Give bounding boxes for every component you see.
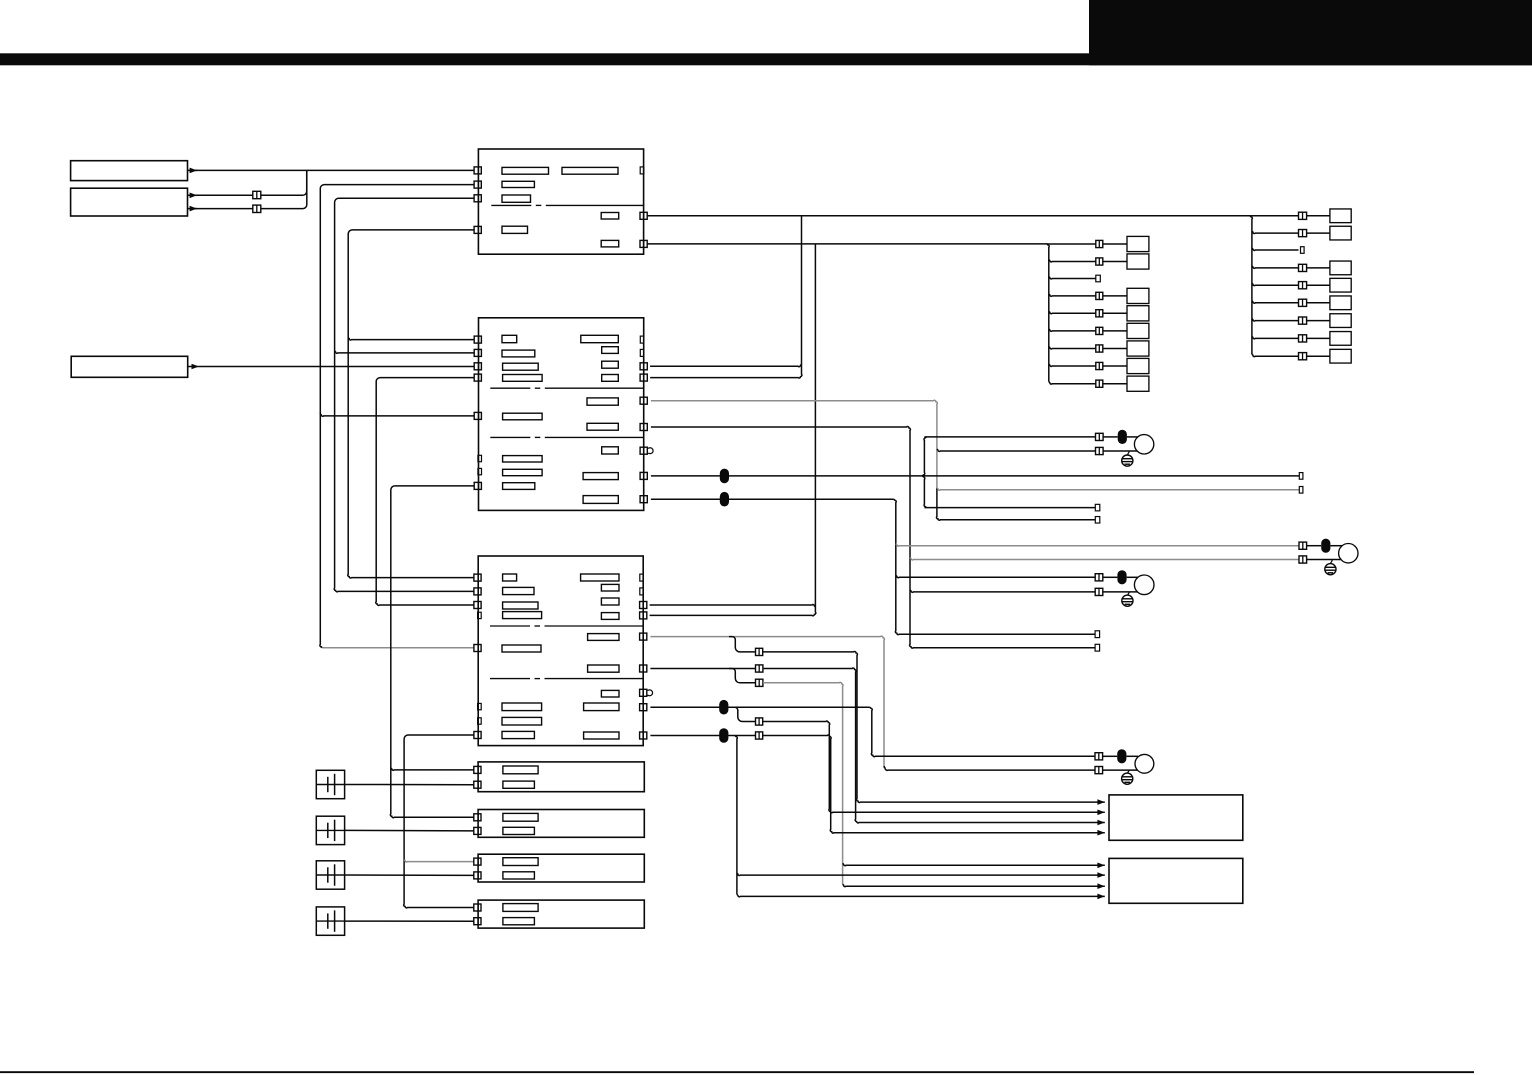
branch arrow row 865 — [843, 863, 1105, 865]
branch motor1 bottom lead — [937, 449, 1096, 451]
bus row 9 wire to module — [1103, 383, 1127, 385]
bus row 1 wire — [1049, 243, 1096, 245]
jog branch 682.8 with connector gray — [729, 669, 756, 683]
block TL3 — [71, 356, 188, 377]
bus corner down at x1048.8 — [1047, 244, 1049, 382]
arrow from TL2 pin1 — [188, 194, 198, 196]
wire TL2 pin1 with connector CN1 — [190, 194, 253, 196]
CD-B inner rects — [503, 813, 538, 821]
motor bead — [1103, 755, 1118, 757]
chassis ground — [1122, 455, 1133, 466]
fan row 1 module box — [1330, 209, 1351, 223]
bus row 3 wire — [1049, 277, 1096, 279]
wire to single connector 507 — [924, 507, 1095, 509]
bus row 6 connector — [1096, 327, 1103, 334]
V936.9 lower black section — [936, 488, 1095, 520]
fan row 8 wire — [1252, 336, 1299, 338]
fan row 5 connector — [1299, 282, 1307, 289]
bus row 7 module box — [1127, 341, 1149, 356]
ground tap — [1127, 770, 1129, 773]
gray wire 682.8 to V842.6 — [763, 682, 843, 884]
U1 inner label rects — [502, 167, 549, 174]
fan row 4 wire to module — [1307, 267, 1330, 269]
bus row 5 module box — [1127, 306, 1149, 321]
chassis ground — [1325, 564, 1336, 575]
chassis ground — [1122, 595, 1133, 606]
motor circle — [1134, 575, 1154, 595]
motor connector top — [1095, 574, 1103, 581]
wire 651.9 to V857 down to arrow row 802 — [763, 651, 1105, 802]
U3 inner label rects right — [581, 574, 619, 581]
wire jack J2 to CD-B pin2 — [345, 829, 475, 832]
block TL2 — [71, 188, 188, 216]
wire U3 pin 707 with bead to V871.8 — [650, 706, 869, 708]
bus row 9 module box — [1127, 376, 1149, 391]
bus row 5 wire to module — [1103, 312, 1127, 314]
bus row 4 connector — [1096, 292, 1103, 299]
bus row 6 wire — [1049, 329, 1096, 331]
wire jack J3 to CD-C pin2 — [345, 874, 475, 876]
branch motor3 bottom lead — [910, 590, 1095, 592]
fan row 1 wire — [1252, 215, 1299, 217]
U3 left pins — [474, 574, 481, 581]
wire V6 from U2 pin8 down to CD-A and CD-B — [390, 486, 474, 818]
branch to U2 pin5 — [320, 414, 474, 416]
bus row 1 module box — [1127, 236, 1149, 251]
block CD-D — [478, 900, 644, 928]
ferrite bead FB3 — [719, 700, 728, 715]
bus row 2 connector — [1096, 258, 1103, 265]
jack J3 — [316, 861, 344, 889]
bus row 1 wire to module — [1103, 243, 1127, 245]
motor circle — [1134, 435, 1153, 454]
U1 left pins — [474, 167, 481, 174]
bus row 4 wire — [1049, 294, 1096, 296]
wire jack J4 to CD-D pin2 — [345, 920, 475, 922]
wire U1 pin5 long feed to right fan — [647, 215, 1252, 217]
U2 right pins — [640, 363, 647, 370]
bus row 8 wire — [1049, 364, 1096, 366]
bus row 8 module box — [1127, 358, 1149, 373]
wire 721.5 to V829.3 down to arrow row 812 — [763, 721, 1105, 813]
fan row 9 wire to module — [1307, 355, 1330, 357]
U2 inner label rects right — [581, 335, 619, 342]
bus row 5 wire — [1049, 311, 1096, 313]
branch to U2 pin2 — [335, 351, 475, 353]
bus row 2 module box — [1127, 254, 1149, 269]
arrow from TL3 — [188, 366, 199, 368]
bus row 2 wire to module — [1103, 261, 1127, 263]
U3 right half pins — [640, 574, 644, 581]
gray branch motor2 bottom lead — [910, 558, 1299, 560]
CD-D pins — [474, 904, 481, 911]
gray branch 489 to right stub — [937, 488, 1299, 490]
branch down V736.9 to arrow rows 875/896 — [735, 736, 737, 895]
ferrite bead FB1 — [720, 469, 729, 484]
gray wire to U3 pin5 — [322, 647, 474, 649]
fan row 6 connector — [1299, 299, 1307, 306]
end arrow row 886 — [843, 884, 1105, 886]
wire jack J1 to CD-A pin2 — [345, 784, 475, 786]
bus row 7 connector — [1096, 345, 1103, 352]
wire V4 from U1 pin4 down to U3 pin1 — [348, 230, 474, 578]
U2 no-connect loop stub — [647, 448, 653, 454]
jog branch 651.9 with connector — [729, 637, 756, 652]
bus row 6 wire to module — [1103, 330, 1127, 332]
jack J4 — [316, 907, 344, 935]
fan row 6 wire — [1252, 301, 1299, 303]
branch to U2 right pin1 — [650, 364, 801, 366]
branch to CD-A pin1 — [391, 768, 474, 770]
gray wire from U2 pin 400 to V936.9 — [651, 400, 937, 490]
bus row 8 connector — [1096, 362, 1103, 369]
ground tap — [1330, 560, 1332, 564]
fan row 2 wire to module — [1307, 232, 1330, 234]
jack J2 — [316, 816, 344, 844]
U2 divider lines — [490, 387, 530, 389]
connector CN2 on TL2 pin2 wire — [190, 208, 253, 210]
block CD-A — [478, 762, 644, 792]
wire V5 from U2 pin4 down to U3 pin3 — [376, 378, 474, 606]
branch to U2 pin1 — [348, 338, 474, 340]
U1 right half pin — [640, 167, 644, 174]
fan row 7 module box — [1330, 314, 1351, 328]
motor connector top — [1096, 433, 1104, 440]
module box U1 — [478, 149, 643, 254]
bus row 5 connector — [1096, 310, 1103, 317]
U2 left pins — [474, 336, 481, 343]
block CD-B — [478, 810, 644, 838]
fan row 2 wire — [1252, 231, 1299, 233]
fan row 7 wire — [1252, 319, 1299, 321]
fan row 2 connector — [1299, 230, 1307, 237]
fan row 1 connector — [1299, 212, 1307, 219]
fan row 8 module box — [1330, 332, 1351, 346]
fan row 8 connector — [1299, 335, 1307, 342]
bus row 4 module box — [1127, 288, 1149, 303]
motor bead — [1307, 545, 1322, 547]
gray wire U3 pin 636 to V884 — [650, 636, 884, 768]
bus row 2 wire — [1049, 260, 1096, 262]
fan row 3 wire — [1252, 248, 1299, 250]
fan row 7 wire to module — [1307, 320, 1330, 322]
single connector 519 — [1095, 517, 1100, 524]
wire U2 pin 427 to V910 — [651, 427, 1095, 649]
bottom rule — [0, 1071, 1474, 1073]
fan row 9 connector — [1299, 353, 1307, 360]
CD-C pins — [474, 858, 481, 865]
wire 735 to V830.7 down to arrow row 832 — [763, 735, 1105, 833]
bus row 4 wire to module — [1103, 295, 1127, 297]
arrow from TL2 pin2 — [188, 208, 198, 210]
gray branch motor2 top lead — [896, 544, 1299, 546]
CD-C inner rects — [503, 858, 538, 866]
bus row 1 connector — [1096, 240, 1103, 247]
U2 left half pins — [478, 455, 482, 461]
split junction into V924.4 — [922, 437, 926, 476]
CD-A inner rects — [503, 766, 538, 774]
U3 inner label rects left — [503, 574, 517, 581]
jack J1 — [316, 770, 344, 798]
bus row 8 wire to module — [1103, 365, 1127, 367]
U3 right pins — [640, 602, 647, 609]
motor circle — [1135, 754, 1154, 773]
single connector 475 — [1299, 473, 1303, 480]
ground tap — [1127, 592, 1129, 595]
fan bus vertical x1251.9 — [1250, 216, 1252, 354]
module box U3 — [478, 556, 643, 746]
U3 divider lines — [490, 625, 530, 627]
wire U2 pin 475 long with bead — [651, 475, 1299, 477]
fan row 6 wire to module — [1307, 302, 1330, 304]
single connector 647 — [1095, 644, 1100, 651]
bus row 9 wire — [1049, 382, 1096, 384]
block TL1 — [71, 161, 188, 181]
U3 no-connect loop stub — [647, 690, 653, 696]
block CD-C — [478, 854, 644, 882]
ferrite bead FB2 — [720, 492, 729, 507]
fan row 9 module box — [1330, 349, 1351, 363]
fan row 8 wire to module — [1307, 337, 1330, 339]
bus row 7 wire — [1049, 347, 1096, 349]
CD-B pins — [474, 814, 481, 821]
fan row 6 module box — [1330, 296, 1351, 310]
block BR2 — [1109, 858, 1243, 903]
block BR1 — [1109, 795, 1243, 840]
CD-A pins — [474, 766, 481, 773]
bus row 7 wire to module — [1103, 348, 1127, 350]
motor1 top lead — [924, 436, 1095, 438]
branch to U3 right pin3 — [650, 605, 816, 607]
chassis ground — [1122, 773, 1133, 784]
U2 inner label rects left — [502, 335, 517, 342]
hanger vertical to U3 right pins — [650, 244, 816, 616]
U2 right half pins — [640, 336, 644, 343]
single connector 489 — [1299, 487, 1303, 494]
ground tap — [1127, 451, 1129, 455]
motor circle — [1339, 544, 1358, 563]
wire TL3 to box2 pin3 — [199, 366, 474, 368]
bus row 6 module box — [1127, 323, 1149, 338]
U1 divider line — [491, 204, 531, 206]
motor connector top — [1095, 753, 1103, 760]
wire V7 from U3 pin8 down to CD-C and CD-D — [404, 735, 475, 908]
module box U2 — [479, 318, 644, 511]
bus row 3 stub connector — [1096, 275, 1101, 282]
wire U3 pin 668 with connector to V855.6 — [650, 668, 755, 670]
header black box top-right — [1089, 0, 1532, 65]
fan row 5 wire to module — [1307, 284, 1330, 286]
wire U3 pin 735 with bead and connector — [650, 735, 755, 737]
jog branch 721.5 with connector — [732, 707, 756, 721]
CD-D inner rects — [503, 904, 538, 912]
arrow from TL1 — [188, 169, 198, 171]
motor connector bottom — [1095, 588, 1103, 595]
branch motor3 top lead — [896, 575, 1095, 577]
motor connector bottom — [1095, 767, 1103, 774]
motor connector top — [1299, 542, 1307, 549]
fan row 9 wire — [1252, 354, 1299, 356]
fan row 3 stub connector — [1301, 247, 1305, 254]
fan row 5 module box — [1330, 278, 1351, 292]
motor connector bottom — [1096, 447, 1104, 454]
wire V3 from U1 pin3 down to U3 pin2 — [334, 198, 474, 592]
wire U2 pin 499 with bead to V895.8 — [651, 498, 894, 500]
motor bead — [1103, 576, 1118, 578]
wire V2 from U1 pin2 down to U3 pin5 — [320, 185, 474, 414]
motor bead — [1103, 436, 1118, 438]
bus row 9 connector — [1096, 380, 1103, 387]
fan row 4 module box — [1330, 261, 1351, 275]
fan row 5 wire — [1252, 283, 1299, 285]
ferrite bead FB4 — [719, 728, 728, 743]
motor connector bottom — [1299, 556, 1307, 563]
U3 left half pins — [478, 612, 482, 618]
gray branch to CD-C pin1 — [404, 860, 474, 862]
fan row 4 connector — [1299, 264, 1307, 271]
header black bar — [0, 53, 1532, 65]
fan row 1 wire to module — [1307, 215, 1330, 217]
fan row 2 module box — [1330, 226, 1351, 240]
V884 end to motor4 bottom lead — [884, 766, 1095, 770]
single connector 634 — [1095, 631, 1100, 638]
hanger vertical to U2 right pins — [650, 216, 802, 378]
fan row 7 connector — [1299, 317, 1307, 324]
wire TL1 to box1 pin1 — [190, 169, 474, 171]
wire U1 pin6 to left connector bus — [647, 243, 1049, 245]
U1 right pins — [640, 212, 647, 219]
fan row 4 wire — [1252, 266, 1299, 268]
